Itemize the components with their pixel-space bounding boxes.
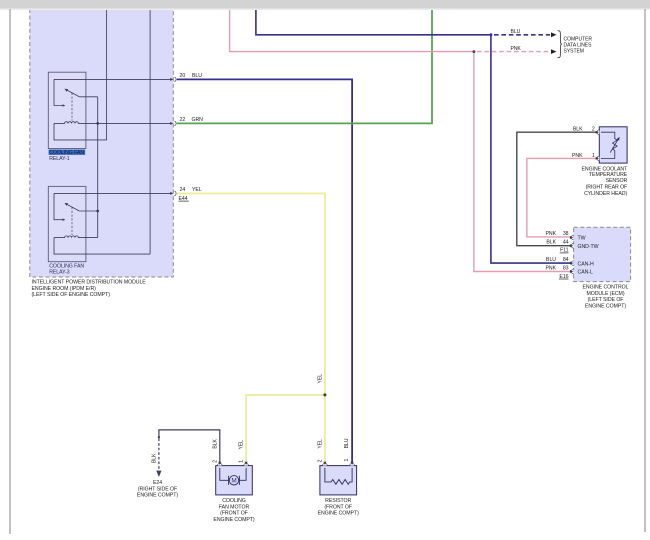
svg-text:2: 2 (318, 459, 324, 462)
svg-text:2: 2 (212, 460, 218, 463)
svg-text:COMPUTER: COMPUTER (564, 36, 593, 42)
svg-text:(RIGHT SIDE OF: (RIGHT SIDE OF (138, 486, 177, 492)
svg-text:20: 20 (180, 73, 186, 79)
svg-text:GND-TW: GND-TW (578, 244, 599, 250)
svg-text:(FRONT OF: (FRONT OF (220, 511, 248, 517)
svg-text:44: 44 (563, 239, 569, 245)
svg-text:(LEFT SIDE OF: (LEFT SIDE OF (588, 297, 624, 303)
svg-text:(LEFT SIDE OF ENGINE COMPT): (LEFT SIDE OF ENGINE COMPT) (32, 292, 111, 298)
svg-text:SENSOR: SENSOR (606, 178, 628, 184)
svg-text:CAN-L: CAN-L (578, 270, 593, 276)
svg-text:24: 24 (180, 187, 186, 193)
svg-text:22: 22 (180, 117, 186, 123)
svg-text:ENGINE COMPT): ENGINE COMPT) (318, 511, 359, 517)
svg-text:MODULE (ECM): MODULE (ECM) (586, 291, 624, 297)
svg-text:BLK: BLK (152, 453, 158, 463)
svg-text:84: 84 (563, 257, 569, 263)
svg-text:RESISTOR: RESISTOR (325, 498, 351, 504)
svg-text:PNK: PNK (511, 46, 522, 52)
svg-text:RELAY-3: RELAY-3 (49, 269, 70, 275)
svg-text:COOLING: COOLING (222, 498, 246, 504)
svg-text:CYLINDER HEAD): CYLINDER HEAD) (584, 191, 627, 197)
svg-text:PNK: PNK (545, 231, 556, 237)
svg-text:38: 38 (563, 231, 569, 237)
svg-text:1: 1 (344, 458, 350, 461)
svg-text:ENGINE COMPT): ENGINE COMPT) (137, 493, 178, 499)
svg-text:GRN: GRN (192, 117, 204, 123)
svg-text:ENGINE CONTROL: ENGINE CONTROL (583, 285, 629, 291)
svg-text:BLU: BLU (192, 73, 202, 79)
svg-text:ENGINE COMPT): ENGINE COMPT) (585, 304, 626, 310)
svg-text:SYSTEM: SYSTEM (564, 48, 584, 54)
svg-text:ENGINE COMPT): ENGINE COMPT) (213, 517, 254, 523)
svg-text:FAN MOTOR: FAN MOTOR (219, 504, 250, 510)
svg-text:2: 2 (592, 127, 595, 133)
svg-text:BLU: BLU (344, 438, 350, 448)
svg-text:RELAY-1: RELAY-1 (49, 156, 70, 162)
svg-text:YEL: YEL (192, 187, 202, 193)
svg-text:BLK: BLK (546, 239, 556, 245)
svg-text:E24: E24 (153, 480, 162, 486)
svg-text:M: M (231, 478, 236, 485)
svg-text:BLK: BLK (573, 127, 583, 133)
svg-text:YEL: YEL (318, 439, 324, 449)
svg-text:YEL: YEL (318, 374, 324, 384)
svg-text:83: 83 (563, 265, 569, 271)
svg-text:1: 1 (592, 153, 595, 159)
svg-text:TW: TW (578, 236, 586, 242)
svg-text:INTELLIGENT POWER DISTRIBUTION: INTELLIGENT POWER DISTRIBUTION MODULE (32, 280, 147, 286)
svg-text:(RIGHT REAR OF: (RIGHT REAR OF (586, 185, 628, 191)
svg-text:PNK: PNK (545, 265, 556, 271)
svg-text:(FRONT OF: (FRONT OF (324, 504, 352, 510)
svg-text:BLK: BLK (212, 439, 218, 449)
svg-text:ENGINE ROOM (IPDM E/R): ENGINE ROOM (IPDM E/R) (32, 286, 97, 292)
svg-text:BLU: BLU (511, 29, 521, 35)
svg-text:PNK: PNK (572, 153, 583, 159)
svg-text:YEL: YEL (239, 440, 245, 450)
svg-text:1: 1 (239, 460, 245, 463)
svg-text:BLU: BLU (546, 257, 556, 263)
svg-text:CAN-H: CAN-H (578, 261, 594, 267)
